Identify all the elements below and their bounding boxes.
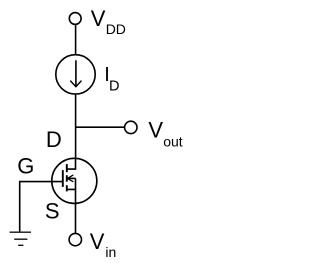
svg-text:D: D [109,79,119,95]
M1 gate plate [62,170,64,187]
label V_DD [91,6,126,37]
wire current source to drain [75,95,77,158]
node D wire to Vout [76,126,125,128]
M1 body arrow [67,175,75,181]
svg-text:in: in [105,244,116,260]
M1 body to source connection [75,178,77,189]
svg-text:DD: DD [106,21,126,37]
M1 channel bottom segment [66,185,68,191]
svg-text:V: V [90,229,105,254]
svg-text:V: V [91,6,106,31]
svg-text:V: V [148,118,163,143]
terminal Vout [125,121,137,133]
transistor M1 body circle [52,158,97,203]
current source I1 [56,55,95,94]
wire source to Vin [75,203,77,233]
terminal VDD [69,13,81,25]
M1 channel top segment [66,164,68,172]
label V_out [148,118,182,150]
svg-text:D: D [46,127,62,152]
ground [10,232,31,245]
M1 channel middle segment [66,175,68,182]
label I_D [104,64,119,94]
svg-text:S: S [45,198,60,223]
gate wire [20,182,63,232]
M1 source lead [67,189,76,204]
wire VDD to current source [75,25,77,55]
terminal Vin [69,233,81,245]
svg-text:out: out [163,133,183,149]
M1 drain lead [67,157,76,169]
label V_in [90,229,117,260]
svg-text:G: G [17,153,34,178]
